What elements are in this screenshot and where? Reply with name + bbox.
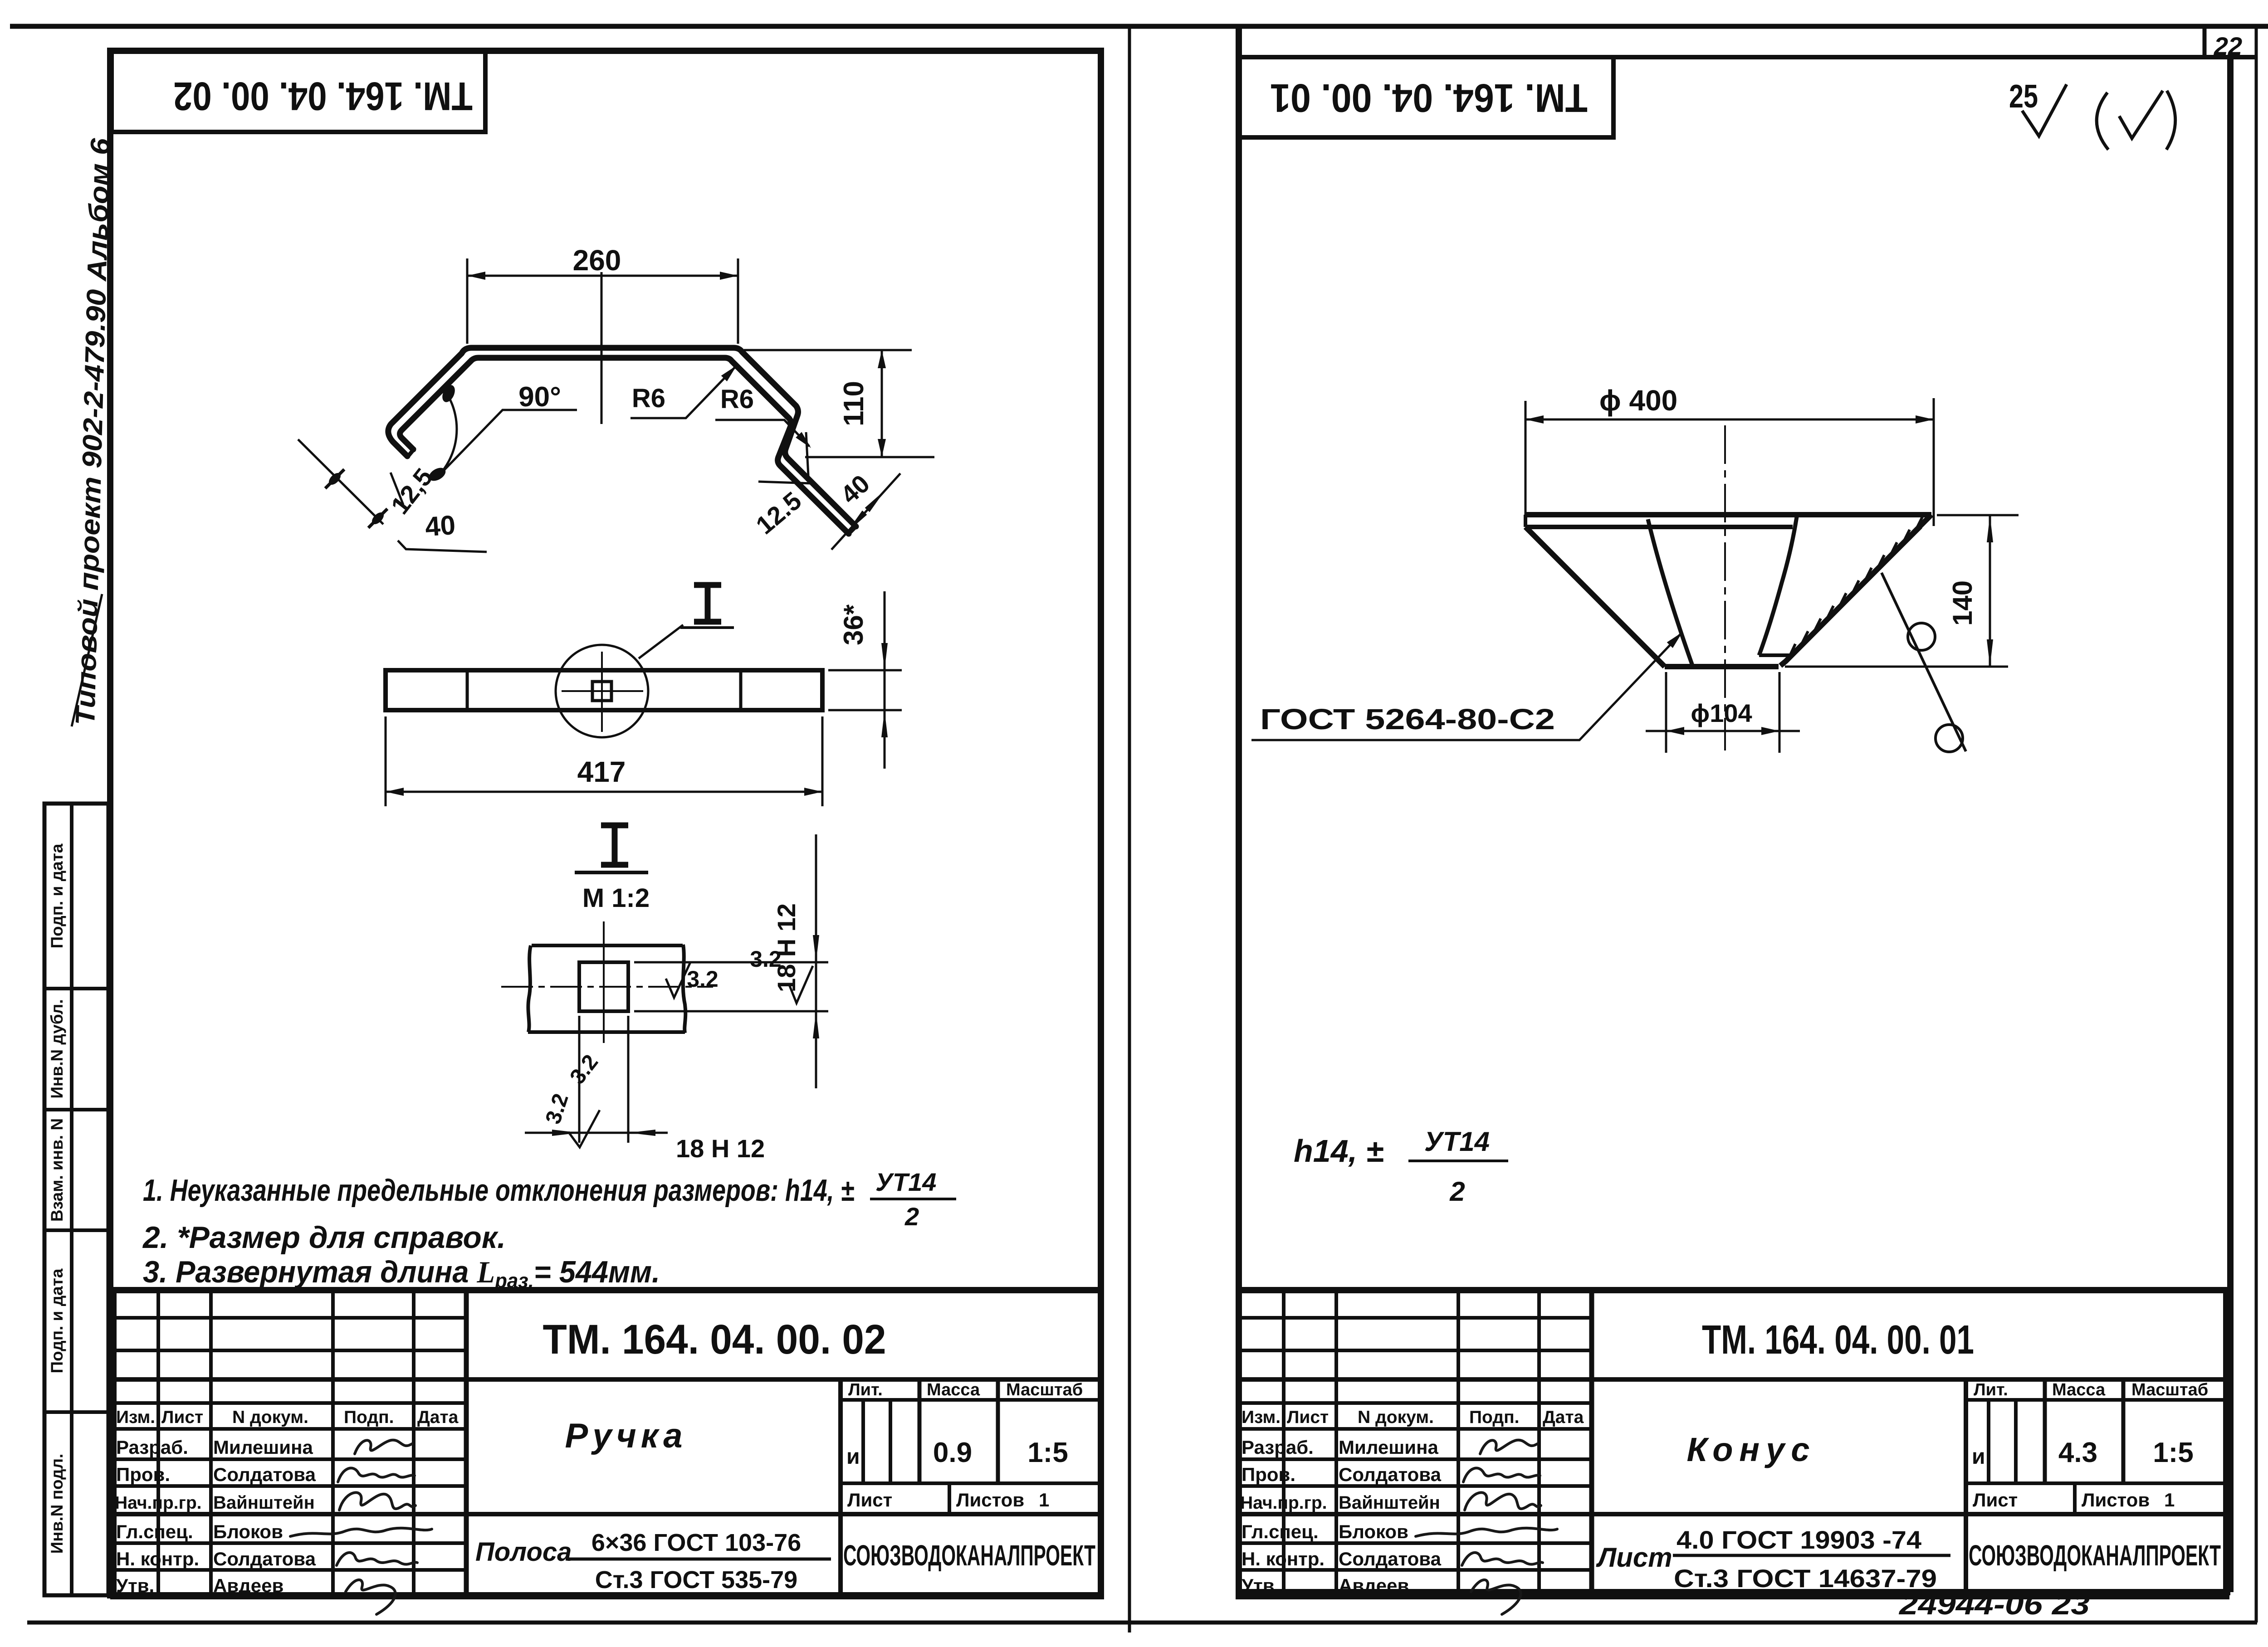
svg-text:Вайнштейн: Вайнштейн [213, 1493, 315, 1513]
svg-text:Изм.: Изм. [116, 1408, 155, 1427]
svg-text:Взам. инв. N: Взам. инв. N [48, 1118, 66, 1222]
svg-text:ТМ. 164. 04. 00. 01: ТМ. 164. 04. 00. 01 [1270, 76, 1588, 121]
svg-text:Лит.: Лит. [848, 1380, 883, 1399]
svg-text:N докум.: N докум. [232, 1408, 308, 1427]
svg-text:ТМ. 164. 04. 00. 02: ТМ. 164. 04. 00. 02 [543, 1316, 886, 1363]
svg-text:4.0 ГОСТ 19903 -74: 4.0 ГОСТ 19903 -74 [1677, 1525, 1921, 1554]
svg-text:Масштаб: Масштаб [1006, 1380, 1083, 1399]
svg-text:6×36 ГОСТ 103-76: 6×36 ГОСТ 103-76 [591, 1529, 801, 1556]
svg-text:25: 25 [2009, 78, 2038, 115]
svg-text:ТМ. 164. 04. 00. 01: ТМ. 164. 04. 00. 01 [1702, 1317, 1974, 1363]
svg-text:Нач.пр.гр.: Нач.пр.гр. [115, 1493, 201, 1513]
svg-text:260: 260 [573, 244, 621, 277]
svg-text:М 1:2: М 1:2 [582, 883, 650, 913]
svg-text:Инв.N подл.: Инв.N подл. [48, 1454, 66, 1554]
svg-text:Листов: Листов [956, 1489, 1024, 1511]
svg-text:ГОСТ 5264-80-С2: ГОСТ 5264-80-С2 [1260, 703, 1555, 736]
svg-text:Солдатова: Солдатова [213, 1464, 316, 1485]
svg-text:Дата: Дата [417, 1408, 459, 1427]
svg-text:Подп. и дата: Подп. и дата [48, 843, 66, 948]
svg-text:и: и [846, 1445, 860, 1469]
svg-text:Ручка: Ручка [565, 1417, 687, 1455]
svg-text:h14, ±: h14, ± [1294, 1133, 1384, 1169]
svg-text:Разраб.: Разраб. [116, 1437, 188, 1458]
svg-text:Гл.спец.: Гл.спец. [116, 1521, 193, 1542]
svg-text:22: 22 [2214, 32, 2242, 60]
svg-text:24944-06 23: 24944-06 23 [1899, 1588, 2090, 1621]
svg-text:Полоса: Полоса [475, 1537, 572, 1567]
svg-text:0.9: 0.9 [933, 1437, 972, 1468]
svg-text:Масса: Масса [927, 1380, 980, 1399]
svg-text:90°: 90° [518, 381, 561, 413]
svg-text:Утв.: Утв. [116, 1575, 154, 1596]
svg-text:Блоков: Блоков [213, 1521, 283, 1542]
svg-text:3.2: 3.2 [750, 946, 782, 972]
svg-text:Авдеев: Авдеев [213, 1575, 283, 1596]
svg-text:ТМ. 164. 04. 00. 02: ТМ. 164. 04. 00. 02 [173, 74, 473, 119]
svg-text:Пров.: Пров. [116, 1464, 170, 1485]
svg-text:1:5: 1:5 [1027, 1437, 1068, 1468]
svg-text:1. Неуказанные предельные откл: 1. Неуказанные предельные отклонения раз… [143, 1173, 854, 1208]
svg-text:Лист: Лист [847, 1489, 892, 1511]
svg-text:Милешина: Милешина [213, 1437, 313, 1458]
svg-text:Ст.3 ГОСТ 14637-79: Ст.3 ГОСТ 14637-79 [1674, 1564, 1937, 1593]
svg-text:2: 2 [1449, 1176, 1465, 1207]
svg-text:Ст.3 ГОСТ 535-79: Ст.3 ГОСТ 535-79 [595, 1566, 797, 1593]
svg-text:УТ14: УТ14 [1424, 1126, 1490, 1157]
svg-text:18 Н 12: 18 Н 12 [676, 1134, 765, 1163]
svg-text:110: 110 [838, 381, 870, 426]
svg-text:40: 40 [424, 510, 456, 542]
svg-text:СОЮЗВОДОКАНАЛПРОЕКТ: СОЮЗВОДОКАНАЛПРОЕКТ [843, 1539, 1095, 1572]
svg-text:Н. контр.: Н. контр. [116, 1548, 199, 1569]
svg-text:УТ14: УТ14 [875, 1168, 936, 1196]
svg-text:3. Развернутая длина Lраз.= 5: 3. Развернутая длина Lраз.= 544мм. [143, 1255, 660, 1292]
svg-text:Лист: Лист [1596, 1542, 1672, 1573]
svg-text:R6: R6 [720, 385, 754, 414]
svg-text:417: 417 [577, 755, 626, 788]
svg-text:4.3: 4.3 [2058, 1437, 2097, 1468]
svg-text:36*: 36* [838, 604, 869, 645]
svg-text:ϕ104: ϕ104 [1691, 699, 1752, 727]
svg-text:Подп. и дата: Подп. и дата [48, 1268, 66, 1373]
svg-text:Подп.: Подп. [344, 1408, 394, 1427]
svg-text:ϕ 400: ϕ 400 [1599, 384, 1678, 417]
svg-text:Солдатова: Солдатова [213, 1548, 316, 1569]
svg-text:Конус: Конус [1687, 1431, 1816, 1468]
svg-text:Инв.N дубл.: Инв.N дубл. [48, 999, 66, 1098]
svg-text:140: 140 [1947, 580, 1978, 626]
svg-text:2: 2 [904, 1202, 919, 1231]
svg-text:Лист: Лист [161, 1408, 203, 1427]
svg-text:2. *Размер для справок.: 2. *Размер для справок. [142, 1220, 506, 1255]
svg-text:R6: R6 [632, 384, 665, 413]
svg-text:3.2: 3.2 [687, 966, 719, 992]
svg-text:1: 1 [1039, 1489, 1049, 1511]
